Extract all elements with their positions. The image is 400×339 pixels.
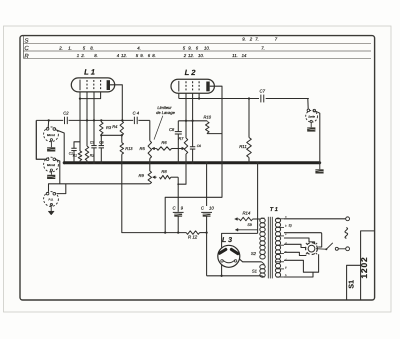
svg-text:12.: 12. — [121, 53, 127, 58]
R5 wiper arrow — [152, 148, 157, 150]
transformer primary winding S1 — [260, 265, 265, 269]
capacitor C6 — [100, 135, 102, 145]
junction dots grid wire — [86, 119, 88, 121]
wire L2 output line — [179, 98, 259, 100]
transformer secondary winding — [275, 218, 280, 223]
svg-text:R 12: R 12 — [188, 235, 198, 240]
svg-text:Micro2: Micro2 — [47, 164, 56, 167]
ground PU arrow — [50, 204, 52, 211]
wire grid bus left — [36, 119, 63, 121]
svg-text:Micro1: Micro1 — [47, 134, 56, 137]
svg-text:C 4: C 4 — [133, 111, 140, 116]
svg-text:R8: R8 — [161, 169, 167, 174]
svg-text:Sortie: Sortie — [308, 116, 315, 119]
capacitor C8 — [177, 121, 179, 132]
wire jack to bus end — [316, 111, 320, 163]
ground output jack — [310, 123, 312, 128]
wire micro1 to grid wire — [47, 120, 50, 127]
wire left input rail — [36, 120, 46, 159]
svg-text:S1: S1 — [252, 268, 257, 273]
selector step wire 4 — [284, 252, 306, 255]
svg-text:7.: 7. — [255, 37, 259, 42]
selector step wire 5 — [284, 254, 319, 272]
wire L2 grid1 / resistor R7 — [185, 93, 187, 138]
wire R6 to R7 arrow — [183, 148, 185, 150]
ground bus end — [319, 163, 321, 169]
svg-text:8.: 8. — [94, 53, 98, 58]
svg-text:8.: 8. — [90, 46, 94, 51]
svg-text:1202: 1202 — [359, 256, 369, 278]
svg-text:P.U.: P.U. — [49, 199, 54, 202]
header rule R — [23, 57, 371, 59]
wire L2 cathode — [178, 93, 180, 98]
svg-text:R1: R1 — [73, 154, 77, 158]
wire HT to output transformer — [257, 163, 259, 234]
mains terminal upper — [346, 217, 350, 221]
selector step wire 1 — [284, 233, 322, 247]
wire L1 cathode link — [80, 92, 101, 99]
svg-text:C6: C6 — [197, 144, 201, 148]
wire L1 pin2 — [86, 92, 88, 146]
tube L3 — [218, 245, 240, 267]
box 1202 — [361, 231, 375, 300]
svg-text:10.: 10. — [198, 53, 204, 58]
wire micro2 right down — [56, 160, 60, 184]
svg-text:12.: 12. — [188, 53, 194, 58]
wire R8 down to C9 — [177, 177, 179, 212]
svg-text:R14: R14 — [242, 210, 250, 215]
svg-text:R11: R11 — [239, 144, 247, 149]
svg-text:S: S — [24, 37, 28, 44]
header rule C — [23, 50, 371, 52]
wire L1 pin3 — [93, 92, 95, 146]
step wire bus to C9 line — [178, 163, 186, 184]
svg-text:C3: C3 — [90, 141, 94, 145]
box S1 — [347, 265, 361, 300]
jack Sortie — [306, 110, 318, 122]
wire screen segment — [178, 120, 207, 122]
header rule S — [23, 42, 371, 44]
resistor R4 — [120, 121, 124, 135]
svg-text:9.: 9. — [188, 46, 192, 51]
wire L1 anode — [110, 85, 122, 121]
tube L2 — [171, 79, 214, 93]
capacitor C1 — [74, 142, 80, 148]
arrow heater feed — [235, 229, 257, 231]
svg-text:C7: C7 — [260, 89, 266, 94]
potentiometer R5 — [149, 120, 151, 140]
header label column divider — [22, 36, 24, 59]
mains terminal lower — [346, 247, 350, 251]
svg-text:R10: R10 — [204, 115, 212, 120]
wire R3 to R4 — [101, 134, 122, 136]
wire L2 grid3 stub — [198, 93, 200, 98]
svg-text:R: R — [24, 53, 29, 60]
svg-text:8.: 8. — [152, 53, 156, 58]
svg-text:4.: 4. — [137, 46, 141, 51]
bottom return wire — [207, 275, 262, 277]
limiter pointer line — [154, 116, 163, 140]
wire L3 cathode down — [221, 265, 223, 276]
switch wire — [316, 248, 326, 251]
svg-text:R4: R4 — [112, 124, 118, 129]
capacitor C4 — [133, 117, 135, 124]
jack Micro 1 — [44, 127, 59, 142]
resistor R8 — [153, 176, 157, 178]
svg-text:L 1: L 1 — [84, 67, 95, 76]
selector step wire 6 — [284, 272, 313, 277]
svg-text:S): S) — [289, 223, 292, 227]
switch contact — [335, 247, 338, 250]
svg-text:C2: C2 — [63, 110, 69, 115]
svg-text:R5: R5 — [139, 146, 145, 151]
capacitor C3 — [91, 145, 96, 147]
svg-text:C6: C6 — [99, 141, 103, 145]
wire grid feed L3 — [222, 233, 258, 247]
svg-text:R6: R6 — [161, 140, 167, 145]
wire L2 grid2 / capacitor C5 — [192, 93, 194, 147]
ground micro1 — [50, 141, 52, 147]
capacitor C2 — [64, 117, 66, 124]
svg-text:R9: R9 — [138, 173, 144, 178]
svg-text:7.: 7. — [261, 46, 265, 51]
svg-text:L 2: L 2 — [185, 68, 197, 77]
jack Micro 2 — [44, 157, 59, 172]
resistor R9 — [149, 163, 151, 171]
svg-text:T 1: T 1 — [270, 207, 278, 213]
wire L2 anode feedback — [165, 86, 222, 232]
svg-text:S9: S9 — [247, 223, 251, 227]
resistor R3 — [100, 119, 102, 121]
wire pickup feed — [49, 184, 150, 192]
svg-text:10: 10 — [209, 206, 214, 211]
svg-text:R13: R13 — [125, 146, 133, 151]
wire tap to mains terminal — [284, 218, 346, 220]
resistor R12 — [186, 231, 199, 235]
resistor R14 — [239, 217, 252, 221]
svg-text:14: 14 — [242, 53, 247, 58]
resistor R2 — [85, 146, 89, 160]
bottom feedback wire — [122, 163, 186, 233]
secondary taps — [276, 218, 284, 220]
svg-text:10.: 10. — [204, 46, 210, 51]
schematic border frame — [20, 36, 375, 300]
svg-text:2.: 2. — [58, 46, 63, 51]
svg-text:11.: 11. — [232, 53, 238, 58]
wire to output jack — [307, 99, 309, 109]
svg-text:2.: 2. — [80, 53, 85, 58]
resistor R10 — [206, 122, 210, 134]
voltage selector socket — [306, 243, 318, 255]
resistor R13 — [121, 135, 123, 142]
resistor R6 — [157, 147, 172, 151]
capacitor C10 — [205, 162, 207, 164]
transformer core — [267, 217, 269, 279]
selector step wire 3 — [284, 244, 305, 247]
capacitor C7 — [260, 95, 262, 103]
svg-text:R3: R3 — [106, 125, 112, 130]
svg-text:1.: 1. — [68, 46, 72, 51]
svg-text:9.: 9. — [242, 37, 246, 42]
ground micro2 — [50, 171, 52, 175]
resistor R1 — [78, 151, 82, 161]
svg-text:C: C — [24, 45, 29, 52]
svg-text:9.: 9. — [140, 53, 144, 58]
svg-text:S2: S2 — [251, 251, 257, 256]
wire L1 pin1 — [79, 92, 81, 151]
resistor R11 — [248, 97, 250, 99]
svg-text:de Lavage: de Lavage — [156, 110, 175, 115]
svg-text:C8: C8 — [169, 127, 175, 132]
switch lever — [326, 243, 333, 249]
svg-text:S1: S1 — [349, 280, 356, 289]
svg-text:C1: C1 — [69, 152, 73, 156]
selector step wire 2 — [284, 238, 315, 244]
mains AC symbol — [345, 228, 348, 239]
jack PU — [44, 192, 59, 207]
wire L3 anode to S2 — [239, 259, 262, 262]
svg-text:L 3: L 3 — [222, 237, 232, 244]
tube L1 — [71, 78, 114, 92]
svg-text:R7: R7 — [178, 136, 184, 141]
wire micro1 to bus — [56, 130, 65, 163]
HT bus — [63, 161, 66, 164]
transformer primary winding S2 — [260, 218, 265, 223]
